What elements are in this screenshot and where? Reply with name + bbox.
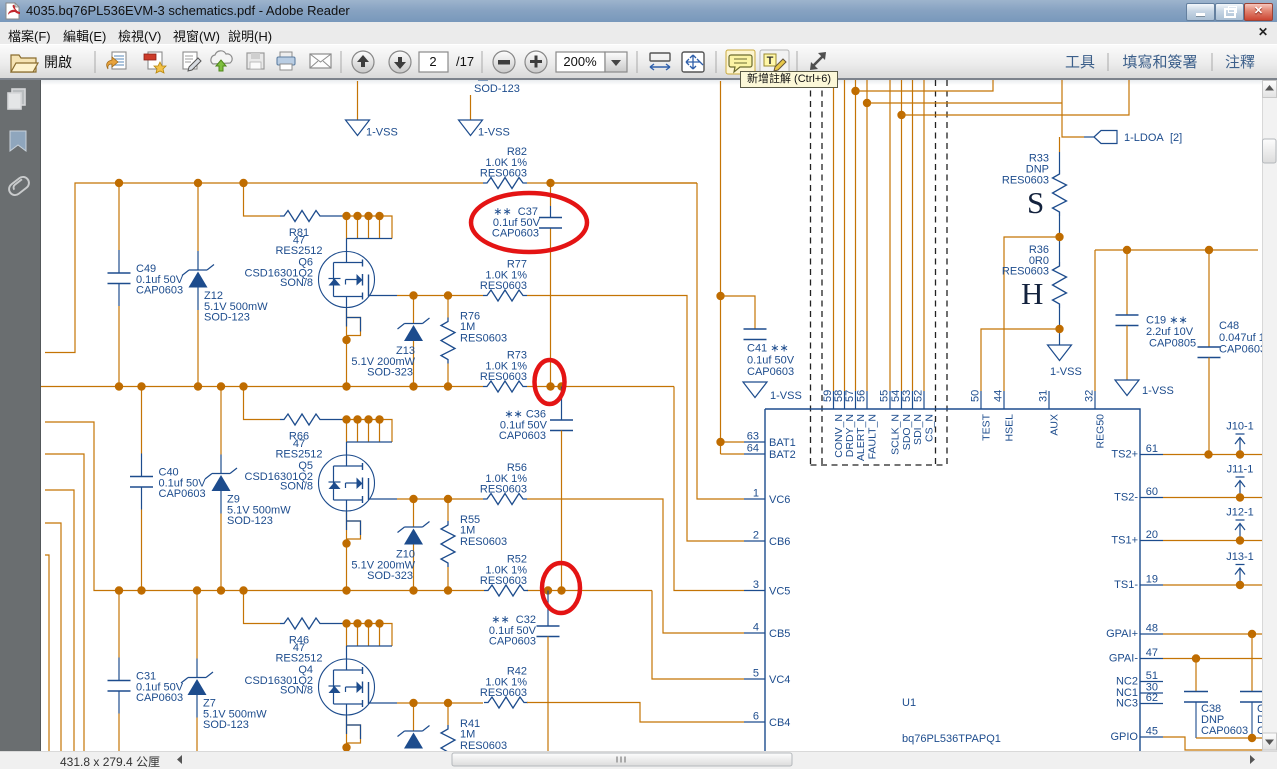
junction bus3 (119,590.5) xyxy=(115,586,123,594)
svg-text:RES0603: RES0603 xyxy=(480,575,527,587)
svg-text:H: H xyxy=(1021,276,1043,311)
resistor R73 1.0K RES0603 xyxy=(480,350,527,393)
junction source (346.5,340.0) xyxy=(342,336,350,344)
junction bus2 (119,386.5) xyxy=(115,382,123,390)
wire bus3 out to pin 5 VC4 xyxy=(652,591,744,680)
svg-text:31: 31 xyxy=(1038,390,1050,402)
pin 48 GPAI+ xyxy=(1106,623,1163,641)
zener diode Z10 5.1V 200mW xyxy=(351,499,429,591)
svg-text:RES0603: RES0603 xyxy=(460,740,507,751)
wire digital bus xyxy=(833,80,835,391)
junction J11-1 (1240,497.5) xyxy=(1236,493,1244,501)
connector J11-1 test point xyxy=(1227,464,1254,498)
svg-text:1M: 1M xyxy=(460,729,475,741)
wire GPAI- net xyxy=(1163,658,1262,660)
svg-text:55: 55 xyxy=(879,390,891,402)
svg-text:REG50: REG50 xyxy=(1095,414,1107,449)
svg-text:1-VSS: 1-VSS xyxy=(478,127,510,139)
wire digital bus xyxy=(889,80,891,391)
junction comb (379.5,216) xyxy=(375,212,383,220)
svg-text:CAP0603: CAP0603 xyxy=(136,285,183,297)
svg-text:CAP0603: CAP0603 xyxy=(492,228,539,240)
svg-text:開啟: 開啟 xyxy=(44,54,72,70)
svg-text:SON/8: SON/8 xyxy=(280,481,313,493)
junction source (346.5,543.5) xyxy=(342,539,350,547)
junction C39 bottom (1252,738) xyxy=(1248,734,1256,742)
svg-text:SDI_N: SDI_N xyxy=(912,414,924,445)
svg-text:J11-1: J11-1 xyxy=(1227,464,1254,476)
svg-text:CAP0603: CAP0603 xyxy=(136,692,183,704)
svg-text:45: 45 xyxy=(1146,726,1158,738)
svg-text:U1: U1 xyxy=(902,697,916,709)
junction on next bus (413.5,386.5) xyxy=(409,382,417,390)
pin 5 VC4 xyxy=(744,668,790,687)
zener diode Z7 5.1V 500mW xyxy=(181,591,267,752)
junction gate row (413.5,499.0) xyxy=(409,495,417,503)
svg-text:CAP0805: CAP0805 xyxy=(1149,338,1196,350)
svg-text:TEST: TEST xyxy=(981,413,993,440)
svg-text:64: 64 xyxy=(747,443,759,455)
wire to pin 50 TEST xyxy=(981,329,1060,391)
svg-text:S: S xyxy=(1027,185,1044,220)
resistor R36 0R0 RES0603 xyxy=(1002,244,1067,308)
ground symbol 1-VSS (left) xyxy=(346,120,398,139)
wire TS2- net xyxy=(1163,497,1262,499)
wire TS2+ net xyxy=(1163,454,1262,456)
ground 1-VSS under R36 xyxy=(1048,345,1082,378)
svg-text:53: 53 xyxy=(901,390,913,402)
svg-text:J10-1: J10-1 xyxy=(1226,421,1254,433)
svg-text:GPIO: GPIO xyxy=(1110,731,1138,743)
svg-text:RES2512: RES2512 xyxy=(275,245,322,257)
junction on next bus (448,590.5) xyxy=(444,586,452,594)
ground 1-VSS under C19 xyxy=(1115,380,1174,397)
svg-text:RES0603: RES0603 xyxy=(480,371,527,383)
junction source (346.5,747.5) xyxy=(342,743,350,751)
junction comb (346.5,623.5) xyxy=(342,619,350,627)
svg-text:AUX: AUX xyxy=(1049,414,1061,436)
wire REG50 net xyxy=(1095,250,1258,391)
junction bus1 (119,183) xyxy=(115,179,123,187)
svg-text:1-VSS: 1-VSS xyxy=(770,390,802,402)
svg-text:bq76PL536TPAPQ1: bq76PL536TPAPQ1 xyxy=(902,733,1001,745)
pin 50 TEST xyxy=(970,390,993,441)
svg-text:BAT2: BAT2 xyxy=(769,449,796,461)
junction gate row (448,295.5) xyxy=(444,291,452,299)
junction comb (346.5,216) xyxy=(342,212,350,220)
svg-text:TS2+: TS2+ xyxy=(1111,449,1138,461)
svg-text:T: T xyxy=(767,55,774,67)
resistor R46 47 RES2512 xyxy=(275,618,345,665)
svg-text:SOD-323: SOD-323 xyxy=(367,367,413,379)
svg-text:2: 2 xyxy=(753,530,759,542)
wire source loop xyxy=(347,308,361,387)
junction J10-1 (1240,454.5) xyxy=(1236,450,1244,458)
junction BAT feed (720.5,296) xyxy=(716,292,724,300)
connector J10-1 test point xyxy=(1226,421,1254,455)
wire R33-R36 xyxy=(1059,216,1061,262)
wire TS1- net xyxy=(1163,584,1262,586)
junction bus2 (243.5,386.5) xyxy=(239,382,247,390)
junction REG50 net (1209,250) xyxy=(1205,246,1213,254)
junction comb (368.5,216) xyxy=(364,212,372,220)
resistor R52 1.0K RES0603 xyxy=(480,554,528,597)
svg-text:SOD-123: SOD-123 xyxy=(203,719,249,731)
wire Q6 gate row xyxy=(369,295,398,297)
junction bus taps (855.5,91) xyxy=(851,87,859,95)
svg-text:44: 44 xyxy=(993,390,1005,402)
pin 31 AUX xyxy=(1038,390,1061,436)
svg-text:2: 2 xyxy=(429,54,436,69)
svg-text:CAP0603: CAP0603 xyxy=(159,488,206,500)
junction gate row (448,703.0) xyxy=(444,699,452,707)
wire bus2 (VC5 net) xyxy=(41,386,674,388)
wire R42 out to pin 6 CB4 xyxy=(527,703,744,723)
capacitor C31 0.1uf xyxy=(108,591,184,752)
svg-text:50: 50 xyxy=(970,390,982,402)
transistor Q4 CSD16301Q2 SON/8 xyxy=(245,659,375,715)
pin 32 REG50 xyxy=(1084,390,1107,449)
svg-text:61: 61 xyxy=(1146,443,1158,455)
junction C48/TS2+ (1208.5,454.5) xyxy=(1204,450,1212,458)
wire left margin 3 xyxy=(45,523,61,751)
wire digital bus xyxy=(866,80,868,391)
pin 3 VC5 xyxy=(744,579,790,598)
wire bus3 (VC4 net) xyxy=(45,422,652,591)
resistor R77 1.0K RES0603 xyxy=(480,259,527,302)
svg-text:RES0603: RES0603 xyxy=(480,280,527,292)
junction R52/C32 (red-circled) (548,590.5) xyxy=(544,586,552,594)
junction gate row (448,499.0) xyxy=(444,495,452,503)
pin 51 NC2 xyxy=(1116,670,1163,688)
svg-text:19: 19 xyxy=(1146,574,1158,586)
svg-text:RES0603: RES0603 xyxy=(480,168,527,180)
svg-text:0.1uf 50V: 0.1uf 50V xyxy=(747,355,795,367)
pin 6 CB4 xyxy=(744,711,790,730)
wire bus to R46 xyxy=(244,591,281,624)
junction bus3 (221,590.5) xyxy=(217,586,225,594)
transistor Q5 CSD16301Q2 SON/8 xyxy=(245,455,375,511)
junction comb (379.5,419.5) xyxy=(375,415,383,423)
wire source loop xyxy=(347,715,361,751)
svg-text:GPAI-: GPAI- xyxy=(1109,653,1138,665)
junction J13-1 (1240,585) xyxy=(1236,581,1244,589)
wire bus tap 3 xyxy=(902,80,1130,115)
pin 57 ALERT_N xyxy=(844,390,867,461)
svg-text:SCLK_N: SCLK_N xyxy=(890,414,902,455)
svg-text:CB6: CB6 xyxy=(769,536,790,548)
zener diode Z12 5.1V 500mW xyxy=(182,183,268,387)
junction REG50 net (1127,250) xyxy=(1123,246,1131,254)
junction comb (379.5,623.5) xyxy=(375,619,383,627)
junction bus2 (198,386.5) xyxy=(194,382,202,390)
pin 30 NC1 xyxy=(1116,682,1163,700)
junction BAT feed (720.5,442) xyxy=(716,438,724,446)
svg-text:1-VSS: 1-VSS xyxy=(1050,366,1082,378)
wire digital bus xyxy=(844,80,846,391)
junction bus taps (867,103) xyxy=(863,99,871,107)
svg-text:60: 60 xyxy=(1146,486,1158,498)
pin 62 NC3 xyxy=(1116,692,1163,710)
IC U1 bq76PL536TPAPQ1 outline xyxy=(765,409,1140,751)
capacitor C39 DNP (clipped) xyxy=(1240,634,1265,738)
wire bus tap 1 xyxy=(856,80,994,91)
wire GPAI+ net xyxy=(1163,633,1262,635)
svg-text:RES2512: RES2512 xyxy=(275,653,322,665)
svg-text:0.047uf 16V: 0.047uf 16V xyxy=(1219,332,1262,344)
wire Q4 gate row xyxy=(369,702,398,704)
wire drain comb xyxy=(345,420,392,443)
svg-text:FAULT_N: FAULT_N xyxy=(867,414,879,459)
svg-text:C41 ∗∗: C41 ∗∗ xyxy=(747,343,789,355)
svg-text:C19 ∗∗: C19 ∗∗ xyxy=(1146,315,1188,327)
capacitor C32 0.1uf xyxy=(489,591,560,752)
svg-text:62: 62 xyxy=(1146,692,1158,704)
svg-text:CAP0603: CAP0603 xyxy=(1219,344,1262,356)
svg-text:SOD-123: SOD-123 xyxy=(204,312,250,324)
svg-text:47: 47 xyxy=(1146,647,1158,659)
svg-text:RES2512: RES2512 xyxy=(275,449,322,461)
junction bus2 (141.5,386.5) xyxy=(137,382,145,390)
svg-text:RES0603: RES0603 xyxy=(460,333,507,345)
svg-text:VC6: VC6 xyxy=(769,494,790,506)
svg-text:CAP0603: CAP0603 xyxy=(489,636,536,648)
junction bus2 (221,386.5) xyxy=(217,382,225,390)
svg-text:SOD-123: SOD-123 xyxy=(227,515,273,527)
junction comb (346.5,419.5) xyxy=(342,415,350,423)
svg-text:VC5: VC5 xyxy=(769,586,790,598)
svg-text:NC2: NC2 xyxy=(1116,676,1138,688)
pin 52 CS_N xyxy=(913,390,936,442)
pin 54 SDO_N xyxy=(890,390,913,450)
svg-text:CAP0603: CAP0603 xyxy=(1201,725,1248,737)
wire bus1 (VC6 net) xyxy=(45,183,697,353)
pin 53 SDI_N xyxy=(901,390,924,445)
svg-text:RES0603: RES0603 xyxy=(480,687,527,699)
resistor R41 1M RES0603 xyxy=(441,703,507,770)
junction HSEL (1059.5,237) xyxy=(1055,233,1063,241)
junction bus3 (197,590.5) xyxy=(193,586,201,594)
zener diode Z9 5.1V 500mW xyxy=(205,387,291,591)
wire to ground, net 1-VSS xyxy=(357,81,359,120)
junction on next bus (346.5,590.5) xyxy=(342,586,350,594)
resistor R76 1M RES0603 xyxy=(441,296,507,387)
pin 55 SCLK_N xyxy=(879,390,902,455)
junction comb (368.5,419.5) xyxy=(364,415,372,423)
svg-text:注釋: 注釋 xyxy=(1225,54,1255,71)
junction gate row (413.5,295.5) xyxy=(409,291,417,299)
svg-text:1: 1 xyxy=(753,488,759,500)
svg-text:1-LDOA: 1-LDOA xyxy=(1124,132,1164,144)
svg-text:200%: 200% xyxy=(563,54,597,69)
junction R73/C36 (red-circled) (561.5,386.5) xyxy=(557,382,565,390)
wire bus to R66 xyxy=(244,387,281,420)
wire left margin 2 xyxy=(45,490,74,751)
capacitor C48 0.047uf xyxy=(1198,250,1277,454)
wire to pin 44 HSEL xyxy=(1004,237,1060,391)
transistor Q6 CSD16301Q2 SON/8 xyxy=(245,252,375,308)
wire digital bus xyxy=(901,80,903,391)
resistor R81 47 RES2512 xyxy=(275,211,345,258)
junction comb (357.5,623.5) xyxy=(353,619,361,627)
svg-text:RES0603: RES0603 xyxy=(480,484,527,496)
wire bus to R81 xyxy=(244,183,281,216)
wire to C41 xyxy=(721,296,756,329)
svg-text:SON/8: SON/8 xyxy=(280,277,313,289)
resistor R33 DNP RES0603 xyxy=(1002,153,1067,217)
svg-text:J12-1: J12-1 xyxy=(1226,507,1254,519)
wire BAT1/BAT2 feed xyxy=(721,81,745,454)
svg-text:3: 3 xyxy=(753,579,759,591)
pin 58 DRDY_N xyxy=(833,390,856,457)
pin 4 CB5 xyxy=(744,622,790,641)
resistor R42 1.0K RES0603 xyxy=(480,666,528,709)
svg-text:SOD-123: SOD-123 xyxy=(474,83,520,95)
svg-text:填寫和簽署: 填寫和簽署 xyxy=(1122,53,1197,71)
svg-text:CB5: CB5 xyxy=(769,628,790,640)
pin 61 TS2+ xyxy=(1111,443,1163,461)
svg-text:[2]: [2] xyxy=(1170,132,1182,144)
junction bus3 (141.5,590.5) xyxy=(137,586,145,594)
zener diode Z8 5.1V 200mW xyxy=(398,703,430,749)
svg-text:5: 5 xyxy=(753,668,759,680)
ground symbol 1-VSS (right) xyxy=(459,120,510,139)
svg-text:NC3: NC3 xyxy=(1116,698,1138,710)
svg-text:CAP0603: CAP0603 xyxy=(499,430,546,442)
pin 47 GPAI- xyxy=(1109,647,1163,665)
svg-text:VC4: VC4 xyxy=(769,674,790,686)
junction gate row (413.5,703.0) xyxy=(409,699,417,707)
wire C38/C39 net xyxy=(1196,737,1262,739)
svg-text:1M: 1M xyxy=(460,525,475,537)
wire R33 lead xyxy=(1059,152,1061,170)
svg-text:TS1-: TS1- xyxy=(1114,579,1138,591)
capacitor C49 0.1uf xyxy=(108,183,184,387)
wire 1-LDOA to R33 xyxy=(1059,137,1061,152)
wire left margin 4 xyxy=(45,555,49,751)
wire GPIO xyxy=(1163,737,1262,750)
connector J13-1 test point xyxy=(1226,551,1254,585)
resistor R82 1.0K RES0603 xyxy=(480,146,527,189)
dashed SPI/control bus box xyxy=(811,80,948,465)
wire to 1-LDOA flag xyxy=(1062,80,1084,137)
junction on next bus (448,386.5) xyxy=(444,382,452,390)
svg-text:CB4: CB4 xyxy=(769,717,790,729)
svg-text:GPAI+: GPAI+ xyxy=(1106,628,1138,640)
pin 60 TS2- xyxy=(1114,486,1163,504)
pin 45 GPIO xyxy=(1110,726,1163,744)
svg-text:20: 20 xyxy=(1146,529,1158,541)
wire R77 out to pin 2 CB6 xyxy=(527,296,744,542)
svg-text:C: C xyxy=(1257,725,1262,737)
wire R36 to ground xyxy=(1059,308,1061,345)
svg-text:51: 51 xyxy=(1146,670,1158,682)
svg-text:CAP0603: CAP0603 xyxy=(747,366,794,378)
connector J12-1 test point xyxy=(1226,507,1254,541)
svg-text:BAT1: BAT1 xyxy=(769,437,796,449)
capacitor C19 2.2uf xyxy=(1116,250,1197,380)
annotation red ellipse around R73 junction xyxy=(535,360,565,404)
svg-text:52: 52 xyxy=(913,390,925,402)
svg-text:TS2-: TS2- xyxy=(1114,492,1138,504)
svg-text:6: 6 xyxy=(753,711,759,723)
capacitor C36 0.1uf xyxy=(499,387,573,591)
svg-text:63: 63 xyxy=(747,431,759,443)
svg-text:1-VSS: 1-VSS xyxy=(366,127,398,139)
svg-text:SON/8: SON/8 xyxy=(280,685,313,697)
annotation red ellipse around C37 xyxy=(471,193,587,252)
pin 63 BAT1 xyxy=(744,431,796,450)
svg-text:C48: C48 xyxy=(1219,320,1239,332)
svg-text:2.2uf 10V: 2.2uf 10V xyxy=(1146,326,1194,338)
wire drain comb xyxy=(345,624,392,647)
wire bus1 to pin 1 VC6 xyxy=(551,183,744,499)
net flag 1-LDOA xyxy=(1084,131,1182,145)
capacitor C41 0.1uf xyxy=(744,329,795,378)
junction bus1 (243.5,183) xyxy=(239,179,247,187)
svg-text:HSEL: HSEL xyxy=(1004,414,1016,442)
annotation red ellipse around R52 junction xyxy=(542,563,580,613)
svg-text:56: 56 xyxy=(856,390,868,402)
wire R56 out to pin 4 CB5 xyxy=(527,499,744,633)
svg-text:32: 32 xyxy=(1084,390,1096,402)
svg-text:1M: 1M xyxy=(460,321,475,333)
capacitor C38 DNP xyxy=(1184,659,1248,739)
junction bus taps (901.5,115) xyxy=(897,111,905,119)
svg-text:4: 4 xyxy=(753,622,759,634)
svg-text:/17: /17 xyxy=(456,54,474,69)
wire left margin 1 xyxy=(45,454,84,751)
svg-text:CS_N: CS_N xyxy=(924,414,936,442)
wire TS1+ net xyxy=(1163,540,1262,542)
pin 1 VC6 xyxy=(744,488,790,507)
junction J12-1 (1240,540.5) xyxy=(1236,536,1244,544)
junction GPAI caps (1252,634) xyxy=(1248,630,1256,638)
junction bus3 (243.5,590.5) xyxy=(239,586,247,594)
pin 59 CONV_N xyxy=(822,390,845,458)
ground 1-VSS under C41 xyxy=(743,382,802,402)
pin 44 HSEL xyxy=(993,390,1016,442)
junction comb (357.5,216) xyxy=(353,212,361,220)
junction bus1 (198,183) xyxy=(194,179,202,187)
junction comb (357.5,419.5) xyxy=(353,415,361,423)
wire digital bus xyxy=(923,80,925,391)
svg-text:ALERT_N: ALERT_N xyxy=(855,414,867,461)
svg-text:48: 48 xyxy=(1146,623,1158,635)
svg-text:TS1+: TS1+ xyxy=(1111,535,1138,547)
svg-text:57: 57 xyxy=(844,390,856,402)
pin 2 CB6 xyxy=(744,530,790,549)
junction on next bus (346.5,386.5) xyxy=(342,382,350,390)
svg-text:SOD-323: SOD-323 xyxy=(367,570,413,582)
svg-text:J13-1: J13-1 xyxy=(1226,551,1254,563)
resistor R66 47 RES2512 xyxy=(275,414,345,461)
junction C37 top (550.5,183) xyxy=(546,179,554,187)
wire bus tap 2 xyxy=(867,102,1062,104)
resistor R55 1M RES0603 xyxy=(441,499,507,591)
svg-text:工具: 工具 xyxy=(1065,54,1095,71)
wire source loop xyxy=(347,511,361,591)
wire digital bus xyxy=(912,80,914,391)
clipped component text fragment above Z11 xyxy=(478,79,488,81)
junction TEST (1059.5,329) xyxy=(1055,325,1063,333)
resistor R56 1.0K RES0603 xyxy=(480,462,527,505)
pin 56 FAULT_N xyxy=(856,390,879,460)
junction comb (368.5,623.5) xyxy=(364,619,372,627)
pin 19 TS1- xyxy=(1114,574,1163,592)
svg-text:1-VSS: 1-VSS xyxy=(1142,385,1174,397)
junction R52/C32 (red-circled) (561.5,590.5) xyxy=(557,586,565,594)
